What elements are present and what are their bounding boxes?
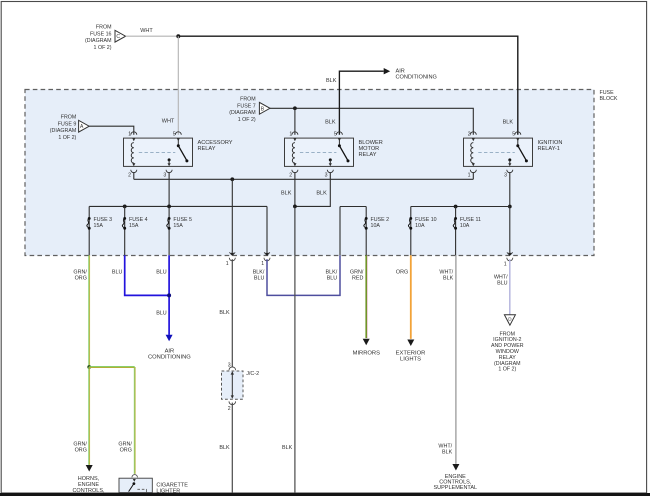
node fuse 4 tap — [123, 205, 127, 209]
svg-text:BLOCK: BLOCK — [600, 96, 618, 102]
svg-text:BLU: BLU — [497, 281, 508, 287]
label BLK above fuse block — [326, 78, 337, 84]
air conditioning top label — [396, 68, 437, 80]
junction connector J/C-2 box — [222, 371, 244, 399]
svg-text:1: 1 — [504, 261, 507, 267]
svg-text:FUSE 16: FUSE 16 — [90, 31, 112, 37]
wire ignition pin 3 drop — [509, 172, 511, 206]
from fuse 7 text — [229, 97, 256, 123]
svg-text:LIGHTER: LIGHTER — [156, 489, 180, 495]
cigarette lighter switch — [129, 479, 147, 492]
wire ignition pin 1 drop — [472, 172, 474, 179]
accessory relay pin 5 — [173, 131, 181, 137]
wire WHT from C to junction — [126, 35, 179, 37]
ignition relay-1 switch — [508, 138, 528, 166]
svg-text:1 OF 2): 1 OF 2) — [498, 367, 516, 373]
label BLK at ignition relay pin 5 — [503, 119, 514, 125]
arrow to air conditioning — [166, 335, 173, 342]
fuse F4 — [122, 217, 147, 230]
ignition relay-1 pin 5 — [512, 131, 520, 137]
label WHT top — [140, 28, 153, 34]
svg-text:C: C — [116, 34, 120, 40]
label GRN/ORG lower left — [73, 442, 87, 454]
blower motor relay coil — [292, 138, 296, 166]
svg-text:J/C-2: J/C-2 — [246, 371, 259, 377]
svg-text:BLK: BLK — [442, 450, 453, 456]
connector B from fuse 7 — [259, 102, 270, 114]
label BLK blower pin 3 — [316, 190, 327, 196]
label J/C-2 pin 2 — [228, 406, 231, 412]
node BLU junction — [167, 293, 171, 297]
wire ignition drop to border — [509, 207, 511, 253]
svg-text:LIGHTS: LIGHTS — [400, 357, 421, 363]
svg-text:3: 3 — [163, 173, 166, 179]
svg-text:15A: 15A — [173, 223, 183, 229]
label GRN/ORG lower right — [118, 442, 132, 454]
label BLU right — [156, 269, 167, 275]
svg-text:BLK: BLK — [325, 120, 336, 126]
wire accessory pin 2 drop — [133, 172, 135, 179]
node WHT junction — [176, 34, 180, 38]
label BLK lower — [219, 445, 230, 451]
svg-text:10A: 10A — [415, 223, 425, 229]
svg-text:3: 3 — [325, 173, 328, 179]
svg-text:1 OF 2): 1 OF 2) — [238, 117, 256, 123]
connector C from fuse 16 — [115, 30, 126, 42]
connector A from fuse 9 — [79, 120, 90, 132]
node coil bus junction — [230, 177, 234, 181]
svg-text:BLU: BLU — [254, 275, 265, 281]
wire WHT/BLK from fuse 11 — [455, 255, 457, 464]
label BLK/BLU left — [253, 269, 265, 281]
ignition relay-1 pin 2 — [468, 131, 476, 137]
label BLK blower lower — [282, 445, 293, 451]
blower motor relay pin 1 — [289, 131, 297, 137]
label BLK inside fuse block — [325, 120, 336, 126]
label GRN/ORG upper — [73, 269, 87, 281]
fuse block label — [600, 90, 618, 102]
fuse F5 — [167, 217, 192, 230]
ignition relay-1 pin 1 — [468, 170, 477, 179]
svg-text:15A: 15A — [129, 223, 139, 229]
svg-text:BLK: BLK — [443, 275, 454, 281]
arrow to mirrors — [363, 339, 370, 346]
arrow to exterior lights — [407, 340, 414, 347]
accessory relay switch — [168, 138, 189, 166]
wire blower BLK in box — [294, 206, 296, 255]
svg-text:2: 2 — [468, 131, 471, 137]
svg-text:FUSE 7: FUSE 7 — [237, 103, 256, 109]
ignition relay-1 box — [464, 138, 533, 166]
wire GRN/ORG branch to cigarette lighter — [89, 367, 135, 474]
accessory relay pin 1 — [128, 131, 136, 137]
accessory relay pin 2 — [128, 170, 137, 179]
svg-text:WHT: WHT — [140, 28, 153, 34]
svg-text:BLK: BLK — [219, 310, 230, 316]
wire from A to accessory pin 1 — [89, 126, 134, 135]
wire fuse 11 leg — [455, 207, 457, 256]
svg-text:SUPPLEMENTAL: SUPPLEMENTAL — [433, 485, 477, 491]
ignition relay-1 actuator dashed link — [478, 151, 515, 153]
wire fuse 3 leg — [88, 206, 90, 255]
svg-text:1: 1 — [261, 261, 264, 267]
blower motor relay pin 2 — [289, 170, 298, 179]
blower motor relay box — [285, 138, 354, 166]
blower motor relay label — [359, 140, 383, 158]
svg-text:15A: 15A — [94, 223, 104, 229]
wire WHT drop to accessory relay pin 5 — [177, 36, 179, 135]
wire blower pin 2 drop — [294, 172, 296, 206]
wire BLK top run to ignition relay — [178, 36, 518, 135]
svg-text:CONDITIONING: CONDITIONING — [148, 354, 191, 360]
wire fuse 5 leg — [168, 206, 170, 255]
wire bus fuse 10-11 — [411, 206, 510, 208]
node blower ground junction — [293, 205, 297, 209]
air conditioning bottom label — [148, 348, 191, 360]
J/C-2 pin 3 connector — [229, 367, 236, 375]
node B junction — [293, 106, 297, 110]
node fuse 5 tap — [167, 205, 171, 209]
node fuse 11 tap — [454, 205, 458, 209]
fuse F2 — [364, 217, 389, 230]
svg-text:10A: 10A — [371, 223, 381, 229]
svg-text:ORG: ORG — [396, 269, 408, 275]
svg-text:5: 5 — [334, 131, 337, 137]
cigarette lighter pin — [132, 475, 138, 478]
accessory relay actuator dashed link — [139, 151, 176, 153]
from fuse 9 text — [50, 115, 77, 141]
blower motor relay pin 5 — [334, 131, 342, 137]
node ignition feed junction — [508, 205, 512, 209]
svg-text:FROM: FROM — [96, 25, 112, 31]
fuse F11 — [453, 217, 481, 230]
ignition relay-1 pin 3 — [504, 170, 513, 179]
label BLK/BLU right — [326, 269, 338, 281]
wire BLK/BLU loop — [267, 255, 340, 295]
wire left fuse bus — [89, 205, 267, 207]
svg-text:CONDITIONING: CONDITIONING — [396, 75, 437, 81]
svg-text:1: 1 — [226, 261, 229, 267]
svg-text:(DIAGRAM: (DIAGRAM — [85, 38, 112, 44]
svg-text:2: 2 — [228, 406, 231, 412]
label WHT/BLU — [494, 275, 508, 287]
arrow to engine controls — [452, 464, 459, 471]
from ignition-2 text — [491, 331, 524, 372]
wire bus1 drop left — [339, 207, 341, 256]
horns engine controls label — [72, 476, 105, 494]
svg-text:BLK: BLK — [281, 190, 292, 196]
svg-text:BLK: BLK — [219, 445, 230, 451]
label BLU left — [112, 269, 123, 275]
svg-text:5: 5 — [173, 131, 176, 137]
accessory relay pin 3 — [163, 170, 172, 179]
cigarette lighter box — [119, 478, 152, 492]
wire GRN/RED from fuse 2 — [366, 255, 367, 338]
wire accessory pin 3 drop — [168, 172, 170, 206]
fuse block dashed box — [25, 90, 594, 256]
engine controls supplemental label — [433, 474, 477, 491]
blower motor relay actuator dashed link — [300, 151, 337, 153]
svg-text:1 OF 2): 1 OF 2) — [94, 45, 112, 51]
accessory relay label — [198, 140, 233, 152]
fuse F10 — [408, 217, 436, 230]
label WHT/BLK lower — [438, 444, 452, 456]
svg-text:2: 2 — [128, 173, 131, 179]
svg-text:RELAY: RELAY — [359, 152, 377, 158]
svg-text:BLU: BLU — [156, 310, 167, 316]
label BLU lower — [156, 310, 167, 316]
wire drop to blower pin 1 — [294, 108, 296, 135]
svg-text:2: 2 — [289, 173, 292, 179]
svg-text:ORG: ORG — [120, 448, 132, 454]
wire from B to ignition relay pin 2 — [270, 108, 473, 135]
label GRN/RED — [350, 269, 364, 281]
svg-text:BLK: BLK — [316, 190, 327, 196]
label ORG — [396, 269, 408, 275]
wire coil bus — [134, 178, 474, 180]
svg-text:1: 1 — [128, 131, 131, 137]
fuse F3 — [87, 217, 112, 230]
svg-text:(DIAGRAM: (DIAGRAM — [50, 128, 77, 134]
wire fuse 2 leg — [365, 207, 367, 256]
svg-text:BLK: BLK — [282, 445, 293, 451]
connector 1 at border (BLK/BLU left) — [261, 252, 270, 266]
wire fuse 10 leg — [410, 207, 412, 256]
blower motor relay pin 3 — [325, 170, 334, 179]
wire BLK drop to border — [231, 179, 233, 252]
svg-text:ORG: ORG — [75, 275, 87, 281]
mirrors label — [353, 351, 381, 357]
accessory relay box — [124, 138, 193, 166]
svg-text:FROM: FROM — [240, 97, 256, 103]
svg-text:RED: RED — [352, 275, 363, 281]
svg-text:BLU: BLU — [327, 275, 338, 281]
svg-text:BLU: BLU — [156, 269, 167, 275]
wire BLU from fuse 4 — [125, 255, 169, 295]
label BLK upper — [219, 310, 230, 316]
wire left bus drop to border — [266, 206, 268, 252]
svg-text:FROM: FROM — [61, 115, 77, 121]
svg-text:3: 3 — [504, 173, 507, 179]
label WHT at accessory pin 5 — [162, 118, 175, 124]
svg-text:10A: 10A — [460, 223, 470, 229]
wire GRN/ORG from fuse 3 — [87, 255, 91, 465]
J/C-2 label — [246, 371, 259, 377]
ignition relay-1 coil — [471, 138, 475, 166]
svg-text:FUSE 9: FUSE 9 — [58, 121, 77, 127]
connector 1 at border (WHT/BLU) — [504, 252, 513, 267]
svg-text:RELAY-1: RELAY-1 — [538, 146, 560, 152]
connector 1 at border (BLK to J/C-2) — [226, 252, 236, 267]
svg-text:MIRRORS: MIRRORS — [353, 351, 381, 357]
wire WHT/BLU from ignition relay — [509, 259, 511, 314]
svg-text:(DIAGRAM: (DIAGRAM — [229, 110, 256, 116]
blower motor relay switch — [329, 138, 350, 166]
connector D triangle — [504, 315, 515, 325]
svg-text:5: 5 — [512, 131, 515, 137]
ignition relay-1 label — [538, 140, 563, 152]
arrow to horns — [86, 465, 93, 472]
wire BLU from fuse 5 — [168, 255, 170, 335]
from fuse 16 text — [85, 25, 112, 51]
wire blower pin 3 jog — [295, 172, 330, 206]
svg-text:1: 1 — [468, 173, 471, 179]
exterior lights label — [396, 351, 426, 363]
accessory relay coil — [131, 138, 135, 166]
wire BLK from J/C-2 to bottom — [231, 403, 233, 493]
label BLK blower pin 2 — [281, 190, 292, 196]
svg-text:ORG: ORG — [75, 448, 87, 454]
wire fuse 4 leg — [124, 206, 126, 255]
J/C-2 pin 2 connector — [229, 401, 236, 404]
svg-text:BLK: BLK — [503, 119, 514, 125]
svg-text:BLU: BLU — [112, 269, 123, 275]
wire BLK from blower relay — [294, 255, 296, 493]
svg-text:CONTROLS,: CONTROLS, — [72, 488, 105, 494]
label J/C-2 pin 3 — [228, 363, 231, 369]
svg-text:BLK: BLK — [326, 78, 337, 84]
cigarette lighter label — [156, 483, 188, 495]
label WHT/BLK upper — [439, 269, 453, 281]
wire ORG from fuse 10 — [410, 255, 412, 339]
J/C-2 internal wire — [231, 374, 234, 399]
wire BLK to J/C-2 — [231, 259, 233, 367]
svg-text:AIR: AIR — [396, 68, 405, 74]
wire BLK blower pin 5 to air conditioning — [339, 68, 390, 135]
svg-text:1 OF 2): 1 OF 2) — [58, 135, 76, 141]
svg-text:WHT: WHT — [162, 118, 175, 124]
svg-text:RELAY: RELAY — [198, 146, 216, 152]
svg-text:1: 1 — [289, 131, 292, 137]
wire bus fuse 2 — [340, 206, 366, 208]
